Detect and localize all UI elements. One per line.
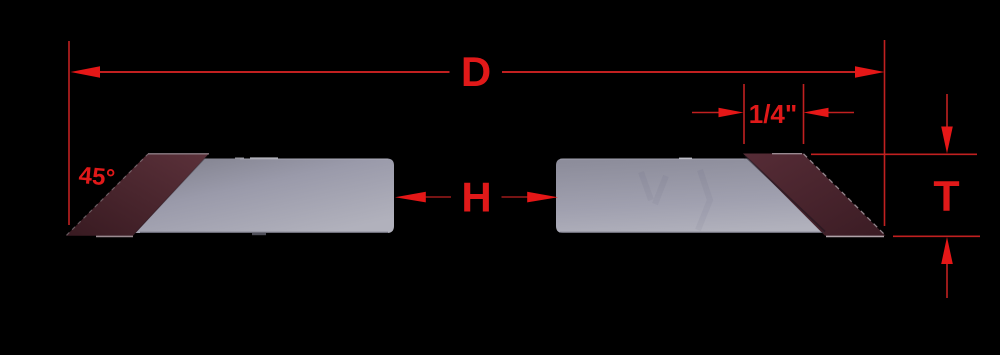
svg-text:1/4": 1/4": [749, 99, 797, 129]
svg-text:D: D: [461, 48, 491, 95]
svg-text:H: H: [461, 174, 491, 221]
svg-text:45°: 45°: [78, 162, 117, 192]
svg-text:T: T: [933, 173, 959, 221]
